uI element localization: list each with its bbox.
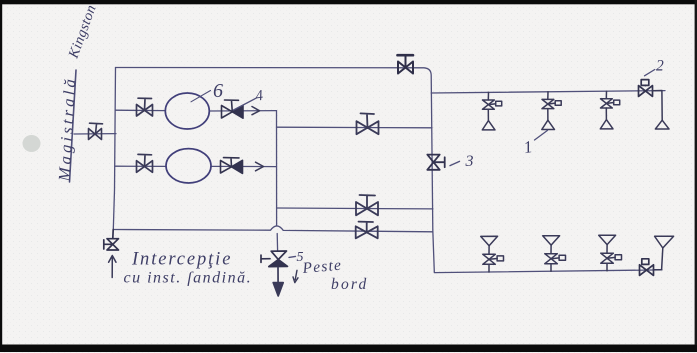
small arrow before Peste (293, 270, 298, 282)
wire top manifold (431, 91, 665, 93)
hydrant H6 bottom (599, 235, 622, 271)
valve V0 main inlet (89, 123, 103, 139)
leader to label 4 (234, 98, 257, 110)
svg-text:Peste: Peste (301, 257, 343, 277)
valve V5m (356, 195, 378, 215)
svg-text:Intercepţie: Intercepţie (131, 250, 232, 270)
leader to label 1 (535, 130, 548, 140)
overboard arrow down (273, 267, 283, 296)
pump P1 (165, 93, 209, 129)
hydrant H4 bottom (481, 236, 504, 272)
leader to label 2 (645, 70, 655, 76)
valve 5 overboard (261, 251, 288, 267)
valve V4 (357, 113, 379, 134)
svg-text:bord: bord (331, 276, 369, 293)
valve top (on box top edge) (398, 55, 414, 73)
wire cross line y208 (277, 207, 433, 210)
flow arrow branch 2 (256, 162, 264, 171)
hydrant H3 top (600, 91, 619, 129)
wire box left edge (113, 68, 115, 230)
wire cross line y127 (277, 126, 433, 129)
leader to label 6 (191, 91, 211, 102)
wire box top edge and right vertical (116, 68, 435, 272)
wire top manifold right end + outlet triangle (653, 91, 670, 130)
flow arrow up into intercept valve (109, 256, 116, 278)
hydrant H2 top (542, 92, 561, 130)
valve B1 pump1 suction (137, 98, 153, 116)
pipe main "Magistrala Kingston" (70, 70, 77, 182)
wire bottom box line with crossover hump (113, 226, 433, 232)
valve 3 on right vertical (427, 155, 444, 170)
wire middle vertical (discharge header) (277, 111, 278, 251)
flow arrow branch 1 (252, 107, 260, 115)
wire stub from main to box (74, 133, 116, 135)
valve B2 pump2 suction (137, 154, 153, 172)
leader to label 5 (289, 256, 296, 257)
svg-text:6: 6 (213, 80, 223, 102)
valve V6 on bottom line (356, 222, 378, 239)
leader to label 3 (450, 161, 460, 165)
wire bottom manifold right end + outlet triangle (654, 236, 674, 270)
hydrant H1 top (482, 92, 501, 129)
svg-text:2: 2 (656, 58, 664, 75)
hydrant H5 bottom (543, 236, 566, 272)
pump P2 (166, 149, 211, 183)
wire pump branch 1 (116, 109, 277, 112)
svg-text:3: 3 (465, 153, 474, 170)
scan frame (0, 0, 697, 4)
wire bottom manifold (434, 270, 662, 273)
wire pump branch 2 (116, 165, 277, 167)
check valve NRV2 (221, 158, 243, 174)
valve bottom right (640, 259, 654, 276)
valve 2 top right (639, 80, 653, 97)
check valve NRV1 (222, 100, 244, 118)
smudge (23, 135, 41, 152)
intercept valve bottom-left (104, 230, 119, 251)
svg-text:cu inst. ſandină.: cu inst. ſandină. (124, 270, 253, 287)
